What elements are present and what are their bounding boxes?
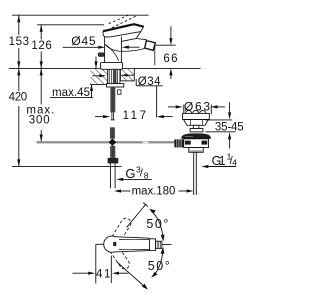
taper	[184, 120, 209, 126]
braided hose lower	[110, 146, 115, 158]
dimension 66	[155, 26, 176, 79]
deck hatching right block	[120, 68, 134, 81]
spout	[105, 32, 155, 52]
left edge line	[95, 244, 97, 283]
dimension 35-45	[205, 102, 235, 148]
pop-up waste valve	[181, 111, 211, 196]
body top block bottom shading curve	[105, 45, 118, 61]
420 bottom reference line	[12, 165, 122, 167]
top reference line	[12, 14, 149, 16]
svg-text:50°: 50°	[146, 217, 168, 231]
dashed swung handle upper	[109, 218, 130, 246]
svg-text:8: 8	[144, 170, 149, 180]
dimension max.300	[40, 68, 43, 141]
dimension Ø45 arrows	[63, 46, 140, 49]
Ø34 label box	[136, 79, 163, 118]
deck hatching left block	[90, 68, 108, 84]
hose thin section + break	[111, 112, 115, 120]
dimension 126	[40, 25, 43, 69]
rod joint node	[109, 138, 117, 146]
svg-text:Ø34: Ø34	[138, 76, 161, 88]
deck line	[9, 67, 201, 69]
50° lower annotation	[117, 247, 164, 290]
svg-text:117: 117	[123, 110, 146, 122]
spout outlet	[145, 41, 156, 51]
lever top reference tick	[37, 24, 104, 26]
dashed swung handle lower	[109, 244, 130, 269]
svg-text:max.45: max.45	[52, 87, 90, 99]
upper block	[183, 113, 210, 119]
svg-text:max.180: max.180	[132, 185, 176, 197]
svg-text:41: 41	[96, 269, 110, 281]
tail rod	[193, 152, 195, 195]
svg-text:Ø63: Ø63	[184, 99, 210, 113]
rod knurled knob	[174, 139, 183, 147]
handle top view	[104, 236, 162, 252]
collar	[190, 129, 203, 132]
svg-text:420: 420	[9, 92, 28, 104]
dimension 117	[95, 115, 173, 118]
braided hose upper	[110, 87, 115, 112]
supply pipe	[111, 163, 116, 188]
faucet side knob	[98, 53, 104, 57]
neck	[193, 125, 199, 128]
svg-text:35-45: 35-45	[215, 121, 244, 133]
water stream line	[154, 45, 156, 65]
faucet base	[101, 62, 123, 69]
dimension Ø34 arrows	[92, 74, 133, 78]
handle pivot connector	[96, 243, 104, 245]
braided hose middle	[110, 127, 115, 138]
bottom nut	[189, 148, 203, 153]
dimension 420	[17, 68, 20, 166]
svg-text:Ø45: Ø45	[71, 34, 96, 48]
svg-text:66: 66	[163, 53, 177, 65]
flange (dark)	[181, 133, 211, 138]
50° upper annotation	[127, 203, 165, 242]
G3/8 leader	[116, 178, 152, 181]
pop-up rod (gray)	[37, 141, 177, 144]
G3/8 connector nut	[108, 158, 119, 164]
faucet lever	[103, 24, 144, 37]
svg-text:153: 153	[9, 36, 29, 48]
dimension Ø63	[168, 105, 225, 115]
max.45 leader arrows	[50, 57, 98, 98]
centerline tick	[162, 244, 172, 246]
faucet body column	[105, 37, 122, 63]
svg-text:300: 300	[29, 115, 50, 127]
dimension max.180	[114, 189, 194, 192]
svg-text:4: 4	[232, 157, 237, 167]
dimension 153	[17, 15, 20, 68]
top bumps	[186, 111, 192, 116]
svg-text:126: 126	[31, 40, 51, 52]
rod guide tab	[118, 90, 121, 94]
mounting washer	[107, 84, 124, 87]
right extension line	[110, 256, 112, 284]
shank through deck	[109, 69, 120, 84]
svg-text:G: G	[125, 166, 135, 181]
lever raised dashed outline	[109, 15, 136, 27]
svg-text:50°: 50°	[148, 259, 170, 273]
G1 1/4 leader	[201, 165, 236, 168]
dimension 41	[73, 272, 129, 275]
lower body	[184, 139, 209, 148]
svg-text:G1: G1	[212, 154, 226, 168]
